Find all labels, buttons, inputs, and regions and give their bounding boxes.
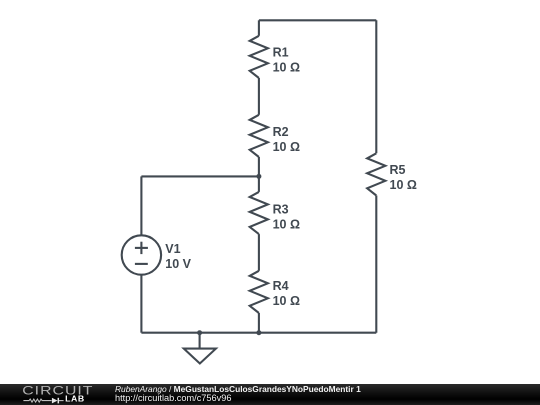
svg-text:LAB: LAB — [65, 395, 85, 403]
svg-text:10 Ω: 10 Ω — [273, 218, 300, 232]
wire R2 to node A — [258, 157, 260, 192]
footer bar — [0, 384, 540, 405]
wire right branch upper — [375, 20, 377, 153]
footer credit line 1 — [115, 385, 361, 393]
ground junction dot — [197, 330, 202, 335]
svg-text:10 Ω: 10 Ω — [273, 61, 300, 75]
svg-text:10 Ω: 10 Ω — [273, 294, 300, 308]
ground — [199, 333, 201, 349]
CircuitLab logo — [0, 384, 110, 405]
wire R1 to R2 — [258, 78, 260, 115]
svg-text:R5: R5 — [390, 163, 406, 177]
resistor R1 — [250, 36, 268, 78]
svg-text:10 Ω: 10 Ω — [390, 178, 417, 192]
wire left branch upper — [140, 176, 142, 235]
wire top horizontal — [259, 19, 376, 21]
wire bottom horizontal — [141, 332, 376, 334]
wire R4 to bottom — [258, 313, 260, 333]
wire middle branch top lead — [258, 20, 260, 36]
svg-text:R3: R3 — [273, 203, 289, 217]
resistor R5 — [367, 153, 385, 195]
svg-text:R4: R4 — [273, 279, 289, 293]
wire right branch lower — [375, 196, 377, 333]
wire left branch lower — [140, 275, 142, 333]
svg-text:10 V: 10 V — [165, 257, 191, 271]
voltage source V1 — [122, 235, 161, 274]
resistor R4 — [250, 271, 268, 313]
logo resistor-diode glyph — [23, 399, 51, 402]
footer credit line 2 — [115, 394, 231, 403]
svg-text:10 Ω: 10 Ω — [273, 140, 300, 154]
node A junction dot — [256, 174, 261, 179]
svg-text:V1: V1 — [165, 242, 180, 256]
svg-text:R1: R1 — [273, 46, 289, 60]
wire node A horizontal — [141, 175, 259, 177]
svg-text:R2: R2 — [273, 125, 289, 139]
resistor R2 — [250, 115, 268, 157]
bottom middle junction dot — [256, 330, 261, 335]
wire R3 to R4 — [258, 234, 260, 271]
resistor R3 — [250, 192, 268, 234]
